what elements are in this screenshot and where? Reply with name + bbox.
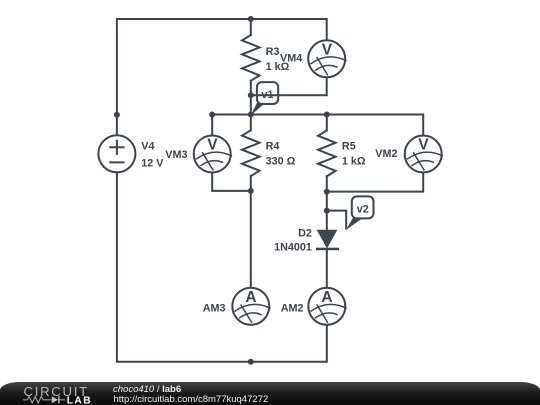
voltmeter VM4 [308,40,346,77]
junction dot: node v1 [248,112,254,118]
voltmeter VM3 [194,136,232,173]
svg-text:1 kΩ: 1 kΩ [266,61,290,73]
svg-text:v2: v2 [357,203,369,215]
svg-text:330 Ω: 330 Ω [266,155,296,167]
voltage source V4 [98,135,135,172]
node v1 flag [251,82,278,115]
voltmeter VM2 [405,136,443,173]
resistor R5 [318,130,336,176]
wire: R3 bottom lead down to node v1 [250,81,252,131]
wire: bottom rail from AM2 to V4 [117,173,327,362]
svg-text:V4: V4 [141,141,154,153]
svg-text:1 kΩ: 1 kΩ [342,155,366,167]
R5 labels: R5 1 kOhm [342,140,366,167]
svg-text:v1: v1 [261,89,273,101]
svg-text:R5: R5 [342,140,356,152]
junction dot: VM3 return / R4 [248,188,254,194]
wire: D2 cathode lead to AM2 [326,249,328,288]
V4 labels: V4 12 V [141,141,164,170]
junction dot: left rail [114,112,120,118]
svg-text:R4: R4 [266,140,280,152]
footer text line 1 [113,384,181,395]
D2 labels: D2 1N4001 [274,227,312,253]
wire: VM4 return to R3 bottom (crosses v1 flag) [251,78,327,96]
svg-text:LAB: LAB [67,395,92,405]
svg-text:R3: R3 [266,46,280,58]
R4 labels: R4 330 Ohm [266,140,296,167]
svg-text:V: V [322,41,333,58]
svg-text:AM2: AM2 [281,303,304,315]
svg-text:A: A [321,289,332,306]
wire: VM2 return to R5 bottom [327,173,423,191]
junction dot: AM3 bottom rail [248,359,254,365]
wire: top rail from V4 to VM4 [117,19,327,135]
wire: R5 top lead [326,115,328,131]
resistor R3 [242,35,259,81]
junction dot: VM2 return / R5 [324,189,330,195]
wire: tap to node v2 flag [327,211,346,229]
wire: middle rail VM3 to VM2 [212,115,423,135]
wire: R5 bottom lead down to D2 [326,176,328,230]
svg-text:V: V [418,137,429,154]
node v2 flag [346,196,374,230]
R3 labels: R3 1 kOhm [266,46,290,73]
junction dot: node v2 [324,208,330,214]
wire: R3 top lead [250,19,252,35]
resistor R4 [242,130,259,176]
wire: R4 bottom lead down to AM3 [250,176,252,287]
ammeter AM3 [232,288,270,325]
svg-text:1N4001: 1N4001 [274,241,312,253]
footer text line 2 [114,394,269,405]
junction dot: R5 top [324,112,330,118]
ammeter AM2 [308,288,346,325]
junction dot: VM3 top [209,112,215,118]
svg-text:AM3: AM3 [203,303,226,315]
svg-text:VM2: VM2 [375,148,397,160]
footer black bar [0,382,540,405]
CircuitLab logo [22,384,122,405]
diode D2 [316,230,339,250]
svg-text:A: A [245,289,256,306]
svg-text:D2: D2 [298,227,312,239]
svg-text:12 V: 12 V [141,157,164,169]
svg-text:VM3: VM3 [165,149,187,161]
junction dot: top rail / R3 [248,16,254,22]
junction dot: VM4 return / R3 [248,92,254,98]
wire: VM3 return to R4 bottom [212,173,251,191]
svg-text:V: V [207,137,218,154]
